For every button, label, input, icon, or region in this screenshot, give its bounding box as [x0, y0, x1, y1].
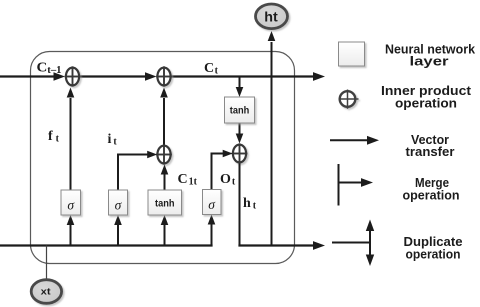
wire: ht riser from bottom bus up to ht ellipse [268, 31, 276, 246]
legend: duplicate operation symbol [332, 220, 374, 267]
wire: riser from tanh1 up into inner product 3 [161, 165, 169, 191]
svg-text:tanh: tanh [155, 199, 175, 210]
svg-text:tanh: tanh [230, 106, 250, 117]
svg-text:ht: ht [243, 196, 257, 212]
wire: arrow from bottom bus into sigma2 [114, 215, 122, 246]
wire: elbow from sigma2 to inner product 3 [118, 151, 157, 190]
wire: Ct line middle segment into second inner-product [80, 72, 157, 80]
sigma3 gate box [203, 190, 222, 215]
wire: ht output line from inner product 4 corner exiting right with arrowhead [238, 241, 325, 250]
legend: merge operation symbol [339, 164, 374, 206]
wire: drop from inner product 4 down to bottom bus [239, 164, 241, 246]
wire: drop from tanh2 down into inner product 4 [236, 123, 244, 144]
svg-text:Ct–1: Ct–1 [37, 61, 62, 77]
svg-text:ft: ft [48, 129, 60, 145]
wire: arrow from bottom bus into tanh1 [161, 215, 169, 246]
svg-text:ht: ht [264, 8, 278, 24]
LSTM cell rounded box [31, 52, 295, 264]
inner product node 3 (input gate multiply) [156, 144, 172, 164]
wire: Ct line right segment exiting cell with arrowhead [171, 72, 325, 81]
wire: riser from sigma1 up into inner product 1 [67, 88, 75, 191]
ht output ellipse [256, 4, 288, 29]
sigma2 gate box [109, 190, 128, 215]
svg-text:it: it [108, 132, 118, 148]
svg-text:Ot: Ot [220, 172, 236, 188]
wire: bottom xt bus line (ends at sigma3 riser corner) [0, 244, 213, 246]
wire: Ct line left segment into first inner-product [0, 72, 65, 80]
svg-text:operation: operation [395, 96, 457, 111]
tanh2 box [225, 97, 255, 123]
svg-text:operation: operation [406, 247, 461, 262]
wire: drop from Ct line down into tanh2 [236, 77, 244, 97]
legend: inner product symbol [339, 90, 359, 109]
wire: elbow from sigma3 to inner product 4 [212, 150, 233, 190]
svg-text:C1t: C1t [178, 172, 198, 188]
svg-text:xt: xt [41, 287, 51, 297]
xt input ellipse [31, 280, 61, 304]
inner product node 1 (forget gate multiply) [65, 66, 81, 86]
legend: vector transfer arrow [330, 136, 379, 145]
legend: neural network layer square [339, 42, 365, 66]
svg-text:layer: layer [410, 54, 449, 69]
wire: arrow from bottom bus into sigma3 [208, 215, 216, 246]
wire: arrow from bottom bus into sigma1 [67, 215, 75, 246]
svg-text:transfer: transfer [406, 144, 455, 159]
svg-text:operation: operation [403, 188, 460, 203]
inner product node 4 (output gate multiply) [232, 143, 248, 163]
inner product node 2 (cell update add) [156, 66, 172, 86]
sigma1 gate box [61, 190, 81, 215]
tanh1 box [148, 190, 182, 215]
wire: stub from bottom bus down to xt ellipse [46, 246, 48, 282]
wire: riser from inner product 3 up into inner product 2 [160, 88, 168, 145]
svg-text:Ct: Ct [204, 61, 219, 77]
